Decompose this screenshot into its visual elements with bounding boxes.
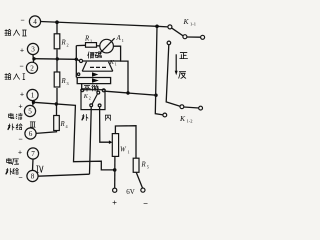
svg-text:+: + xyxy=(20,45,24,54)
svg-text:+: + xyxy=(20,89,24,98)
svg-text:6V: 6V xyxy=(126,188,135,196)
svg-text:1: 1 xyxy=(31,92,35,100)
svg-text:3: 3 xyxy=(67,81,69,86)
svg-text:1: 1 xyxy=(115,62,117,67)
svg-text:3: 3 xyxy=(31,46,35,54)
svg-text:1-1: 1-1 xyxy=(190,22,196,27)
svg-text:6: 6 xyxy=(29,130,33,138)
svg-text:7: 7 xyxy=(31,150,35,158)
svg-text:2: 2 xyxy=(67,42,69,47)
svg-text:K: K xyxy=(179,114,186,123)
svg-text:1-2: 1-2 xyxy=(187,119,193,124)
svg-text:W: W xyxy=(120,147,127,154)
svg-text:A: A xyxy=(116,35,122,42)
svg-text:1: 1 xyxy=(122,38,124,43)
svg-text:−: − xyxy=(20,16,24,25)
svg-text:1: 1 xyxy=(128,149,130,154)
svg-text:5: 5 xyxy=(147,164,149,169)
svg-text:−: − xyxy=(18,134,22,143)
svg-text:2: 2 xyxy=(30,64,34,72)
svg-text:−: − xyxy=(19,61,23,70)
svg-text:K: K xyxy=(183,17,190,26)
svg-text:4: 4 xyxy=(33,18,37,26)
svg-text:+: + xyxy=(112,198,117,208)
svg-text:4: 4 xyxy=(66,124,69,129)
svg-text:−: − xyxy=(143,199,148,209)
svg-text:1: 1 xyxy=(90,38,92,43)
svg-text:2: 2 xyxy=(89,96,91,101)
svg-text:5: 5 xyxy=(28,108,32,116)
svg-text:R: R xyxy=(141,162,147,169)
svg-text:−: − xyxy=(18,173,22,182)
svg-text:8: 8 xyxy=(31,173,35,181)
svg-text:+: + xyxy=(18,101,22,110)
svg-text:+: + xyxy=(18,147,22,156)
